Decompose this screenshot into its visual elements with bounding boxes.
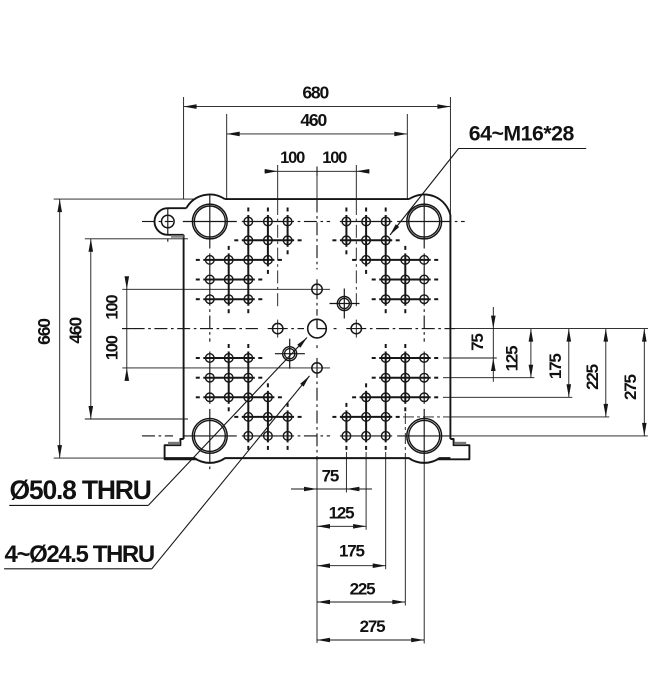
svg-text:125: 125 <box>329 504 355 523</box>
svg-text:275: 275 <box>621 374 640 400</box>
extension line row -100 <box>122 288 330 290</box>
horizontal center line <box>122 328 131 330</box>
dimension 100 100 left <box>126 277 128 382</box>
M16 hole grid lines bottom-left <box>242 416 294 418</box>
M16 hole grid lines top-right <box>340 239 392 241</box>
tie-bar hole 2 <box>407 204 442 239</box>
foot step accents <box>168 442 180 445</box>
svg-text:4~Ø24.5 THRU: 4~Ø24.5 THRU <box>5 541 154 568</box>
svg-text:275: 275 <box>360 617 386 636</box>
svg-text:100: 100 <box>103 335 121 360</box>
svg-text:100: 100 <box>322 149 347 167</box>
bottom chain column extension lines <box>345 452 347 458</box>
vertical center line <box>316 171 318 199</box>
ear hole <box>162 215 175 228</box>
dimension 460 left <box>85 238 188 240</box>
hole at 100 above center <box>312 284 322 294</box>
M16 holes top-left <box>244 217 253 226</box>
M16 holes top-right <box>381 217 390 226</box>
dimension 75 bottom <box>291 488 372 490</box>
M16 hole grid lines top-left <box>242 239 294 241</box>
tie-bar hole center lines (merged with 275 grid rows/cols) <box>142 221 155 223</box>
svg-text:680: 680 <box>302 83 329 103</box>
dimension 275 bottom <box>317 639 424 641</box>
M16 holes bottom-left <box>244 432 253 441</box>
svg-text:660: 660 <box>34 318 54 345</box>
dimension 460 top <box>226 114 228 199</box>
svg-text:460: 460 <box>300 110 327 130</box>
svg-text:Ø50.8 THRU: Ø50.8 THRU <box>10 475 151 505</box>
dimension 225 right <box>605 329 607 417</box>
hole at 100 left of center <box>273 323 283 333</box>
hole at 100 below center <box>312 363 322 373</box>
svg-text:175: 175 <box>339 542 365 561</box>
tie-bar hole 4 <box>407 419 442 454</box>
dimension 175 bottom <box>317 565 386 567</box>
svg-text:225: 225 <box>350 579 376 598</box>
dimension 175 right <box>568 329 570 398</box>
dimension 275 right <box>643 329 645 436</box>
right chain row extension lines <box>443 357 450 359</box>
hole at 100 right of center <box>351 323 361 333</box>
dimension 660 left <box>54 198 196 200</box>
tie-bar hole 1 <box>192 204 227 239</box>
platen plate outline <box>154 194 469 459</box>
svg-text:175: 175 <box>546 354 565 380</box>
dimension 75 right <box>492 307 494 382</box>
svg-text:75: 75 <box>468 334 487 351</box>
dimension 100 100 top <box>265 170 370 172</box>
extension line row +100 <box>122 367 330 369</box>
svg-text:75: 75 <box>322 467 339 486</box>
dimension 680 <box>183 97 185 199</box>
svg-text:225: 225 <box>583 364 602 390</box>
extension line col -100 <box>277 165 279 202</box>
central hole 50.8 THRU <box>308 319 327 338</box>
svg-text:64~M16*28: 64~M16*28 <box>469 122 575 146</box>
diagonal counterbored hole SW <box>283 347 297 361</box>
dimension 125 bottom <box>317 525 366 527</box>
dimension 225 bottom <box>317 601 405 603</box>
M16 holes bottom-right <box>381 432 390 441</box>
M16 hole grid lines bottom-right <box>340 416 392 418</box>
svg-text:100: 100 <box>280 149 305 167</box>
svg-text:460: 460 <box>66 317 86 344</box>
diagonal counterbored hole NE <box>337 297 351 311</box>
extension line col +100 <box>355 165 357 202</box>
dimension 125 right <box>530 329 532 378</box>
svg-text:100: 100 <box>103 295 121 320</box>
svg-text:125: 125 <box>502 346 521 372</box>
tie-bar hole 3 <box>192 419 227 454</box>
